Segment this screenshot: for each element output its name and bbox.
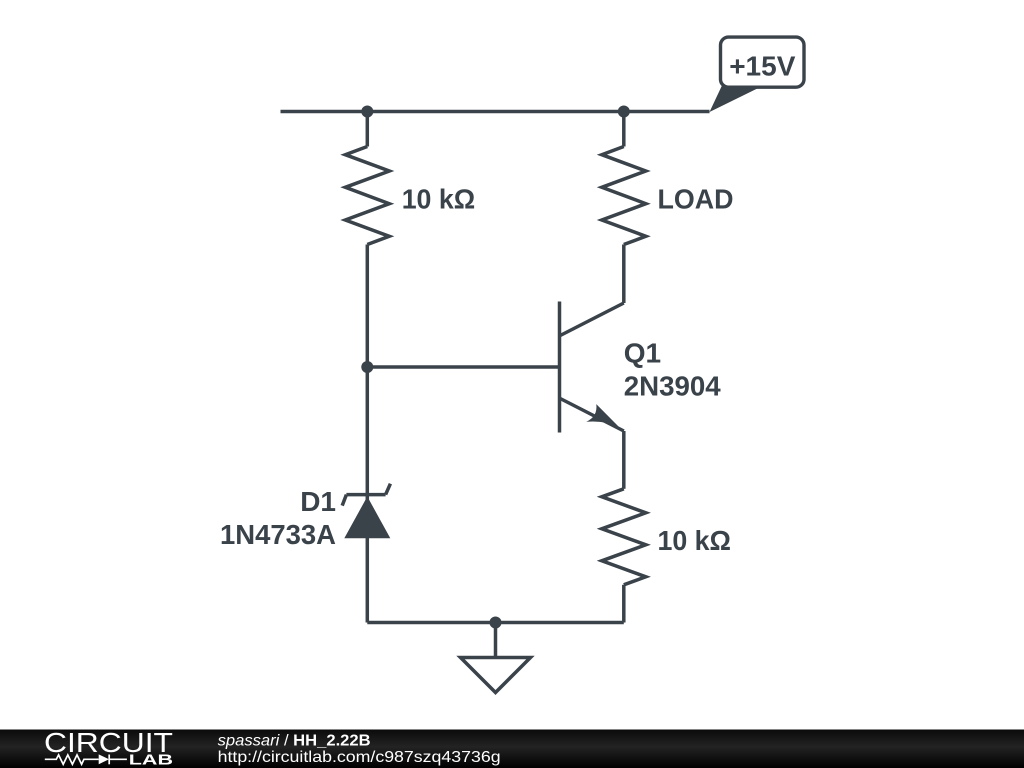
svg-text:1N4733A: 1N4733A <box>220 519 336 550</box>
footer bar <box>0 730 1024 768</box>
wire bottom rail <box>367 621 624 625</box>
power flag +15V box <box>721 37 805 87</box>
diode D1 triangle <box>344 497 390 539</box>
svg-text:10 kΩ: 10 kΩ <box>402 183 476 214</box>
svg-text:Q1: Q1 <box>624 338 661 369</box>
node base junction <box>361 361 373 373</box>
logo mini schematic <box>45 755 127 765</box>
svg-text:+15V: +15V <box>729 51 795 82</box>
wire collector lead <box>622 245 626 304</box>
svg-text:http://circuitlab.com/c987szq4: http://circuitlab.com/c987szq43736g <box>218 749 501 766</box>
svg-text:D1: D1 <box>300 486 336 517</box>
transistor Q1 body <box>560 302 624 433</box>
svg-text:2N3904: 2N3904 <box>624 371 721 402</box>
wire bottom right lead <box>622 585 626 623</box>
svg-text:LAB: LAB <box>129 752 173 768</box>
node ground junction <box>490 617 502 629</box>
svg-text:10 kΩ: 10 kΩ <box>658 525 732 556</box>
svg-text:LOAD: LOAD <box>658 183 734 214</box>
wire emitter lead <box>622 431 626 489</box>
node top-right junction <box>618 106 630 118</box>
resistor LOAD <box>602 147 646 245</box>
node top-left junction <box>361 106 373 118</box>
resistor R1 10 kOhm left <box>345 147 389 245</box>
wire top rail <box>281 110 710 114</box>
transistor Q1 emitter arrow <box>586 404 618 426</box>
svg-text:spassari / HH_2.22B: spassari / HH_2.22B <box>218 732 371 749</box>
wire left column to diode and bottom <box>366 245 370 623</box>
power flag +15V tail <box>710 84 759 112</box>
ground <box>461 623 531 693</box>
wire left column upper lead <box>366 112 370 147</box>
wire base <box>367 365 559 369</box>
resistor R2 10 kOhm bottom <box>602 489 646 585</box>
diode D1 zener cathode bar <box>342 484 390 506</box>
wire right column upper lead <box>622 112 626 147</box>
